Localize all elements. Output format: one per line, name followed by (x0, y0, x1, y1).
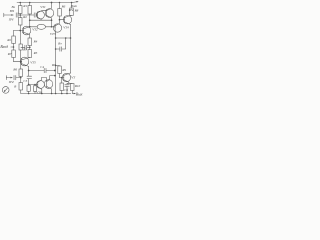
wire mid column top (20, 31, 22, 45)
wire R1 top (19, 3, 21, 6)
resistor R1 (19, 6, 23, 14)
node VTb base junction (20, 61, 22, 63)
svg-text:R4: R4 (33, 40, 38, 44)
resistor R16 upper (19, 69, 23, 77)
svg-text:ВЧ: ВЧ (10, 9, 15, 13)
wire R2 bottom (19, 25, 21, 31)
svg-text:ПЧ: ПЧ (8, 80, 14, 84)
wire emitter common (56, 37, 71, 39)
node supply arrow (72, 1, 78, 4)
capacitor C8 input 2 (14, 75, 21, 79)
wire R12 top (71, 3, 73, 9)
transistor VT4 (63, 16, 71, 24)
resistor R4 emitter VTa (28, 38, 32, 46)
resistor R11 collector VT3 (58, 9, 62, 17)
wire VT2 emitter down (51, 20, 53, 27)
svg-text:С4: С4 (40, 65, 44, 69)
wire R16 bottom (20, 77, 22, 83)
wire R3 bottom collector VTa (29, 14, 31, 27)
wire R6 top to base wire (13, 31, 15, 37)
svg-text:R8: R8 (74, 9, 79, 13)
wire bus stub to R13 (56, 65, 60, 67)
wire R10 bottom (34, 91, 36, 93)
node feedback junction (29, 46, 31, 50)
svg-text:R6: R6 (61, 5, 66, 9)
svg-text:R2: R2 (22, 15, 27, 19)
capacitor C4 coupling (44, 68, 55, 72)
node rail junctions (28, 93, 30, 95)
figure label circled b (2, 87, 9, 94)
node emitter junction (51, 19, 53, 21)
transistor VT5 (62, 73, 70, 81)
svg-text:Rб: Rб (12, 67, 17, 71)
capacitor C3 feedback (27, 46, 29, 48)
svg-text:R10: R10 (74, 84, 81, 88)
node input HF terminal (3, 13, 5, 17)
transistor VTa (22, 26, 31, 35)
capacitor C5 column (27, 71, 32, 85)
node VTd collector bus junction (54, 75, 56, 77)
svg-text:VT3: VT3 (50, 32, 56, 36)
resistor R17 lower (19, 83, 23, 91)
resistor R12 collector VT4 (70, 8, 74, 16)
resistor R6 upper left column (12, 36, 16, 44)
inductor L coil oval (37, 24, 45, 29)
resistor R10 parallel (33, 86, 36, 92)
node collector-coil junction (29, 26, 31, 28)
resistor R13 (58, 66, 62, 74)
resistor R15 output (71, 84, 75, 91)
wire VTa base (14, 30, 24, 32)
svg-text:R9: R9 (61, 68, 66, 72)
wire input line (4, 14, 13, 16)
capacitor C6 emitter bypass (56, 38, 66, 51)
svg-text:R5: R5 (33, 51, 38, 55)
transistor VT1 (37, 11, 45, 19)
svg-text:ПЧ: ПЧ (8, 18, 14, 22)
wire VT4 emitter down (70, 25, 72, 74)
wire R16 top to VTb base wire (20, 62, 22, 69)
svg-text:VT2: VT2 (32, 28, 38, 32)
wire VTc base (29, 84, 38, 86)
wire R10 top (34, 85, 36, 86)
node input 2 junction (20, 77, 22, 79)
wire R9 bottom (28, 91, 30, 93)
resistor R5 (28, 50, 32, 58)
resistor R8 small mid column (19, 44, 22, 50)
wire R1 bottom to node A (19, 14, 21, 18)
wire R13 bottom to VT5 base (60, 74, 64, 78)
wire R3 top (29, 3, 31, 6)
svg-text:Сб: Сб (64, 88, 68, 92)
wire R14 top (61, 78, 63, 83)
svg-text:ПЧ: ПЧ (68, 8, 74, 12)
resistor R3 (28, 6, 32, 15)
wire VT1 emitter to VT2 emitter (30, 19, 52, 21)
svg-text:VT4: VT4 (63, 25, 69, 29)
node bus junction (54, 70, 56, 72)
svg-text:Вых: Вых (76, 93, 83, 97)
svg-text:VT5: VT5 (30, 61, 36, 65)
svg-text:R2: R2 (6, 38, 11, 42)
transistor VT3 (53, 24, 61, 32)
wire R7 bottom to VTb base (14, 58, 22, 62)
svg-text:R7: R7 (7, 52, 12, 56)
svg-text:Вход: Вход (0, 45, 8, 49)
wire R14 bottom (61, 91, 63, 94)
node rail top junctions (20, 2, 22, 4)
svg-text:R: R (13, 85, 16, 89)
node base junction (19, 30, 21, 32)
wire coil left (30, 26, 37, 28)
wire mid column bottom (20, 50, 22, 62)
wire R12 bottom (71, 14, 72, 16)
svg-text:Rэ: Rэ (57, 41, 62, 45)
svg-text:VT6: VT6 (36, 91, 42, 95)
node A junction (19, 14, 21, 16)
wire VT5 collector join (69, 72, 71, 74)
wire emitter to R15 (69, 82, 72, 84)
node coil-emitter junction (51, 26, 53, 28)
svg-text:R9: R9 (51, 63, 56, 67)
node rail junction VT2 (51, 2, 53, 4)
wire input 2 (6, 77, 11, 79)
node input 2 terminal (5, 76, 7, 80)
capacitor C7 output emitter (65, 83, 70, 93)
svg-text:R3: R3 (22, 47, 27, 51)
transistor VTb (20, 57, 29, 66)
resistor R14 base bias (60, 83, 64, 91)
resistor R9 (27, 85, 30, 91)
svg-text:R1: R1 (22, 4, 27, 8)
transistor VTd (44, 80, 53, 89)
wire emitter VTb long coupling (29, 70, 44, 72)
transistor VTc (37, 81, 45, 89)
wire top supply rail (17, 2, 72, 4)
wire R11 top (59, 3, 61, 9)
capacitor C2 (21, 14, 34, 16)
wire VT4 base tap (60, 19, 65, 21)
svg-text:VT1: VT1 (40, 5, 46, 9)
wire R6 bottom (13, 44, 15, 51)
node VTc base node (28, 84, 30, 86)
resistor R7 lower left column (12, 50, 16, 58)
node junction x29 column (28, 70, 30, 72)
wire R17 bottom to rail (20, 90, 22, 94)
wire VT3 emitter bus (55, 33, 57, 94)
transistor VT2 (45, 9, 54, 18)
wire R5 bottom collector VTb (22, 58, 29, 60)
resistor R2 (19, 18, 23, 26)
capacitor C1 (16, 13, 20, 17)
wire bottom common rail (21, 93, 71, 95)
wire coil right to VT3 base (46, 27, 56, 28)
svg-text:С5: С5 (23, 79, 27, 83)
wire R15 bottom output (72, 91, 75, 94)
node input AF junction (13, 46, 15, 48)
wire input AF (11, 46, 14, 48)
